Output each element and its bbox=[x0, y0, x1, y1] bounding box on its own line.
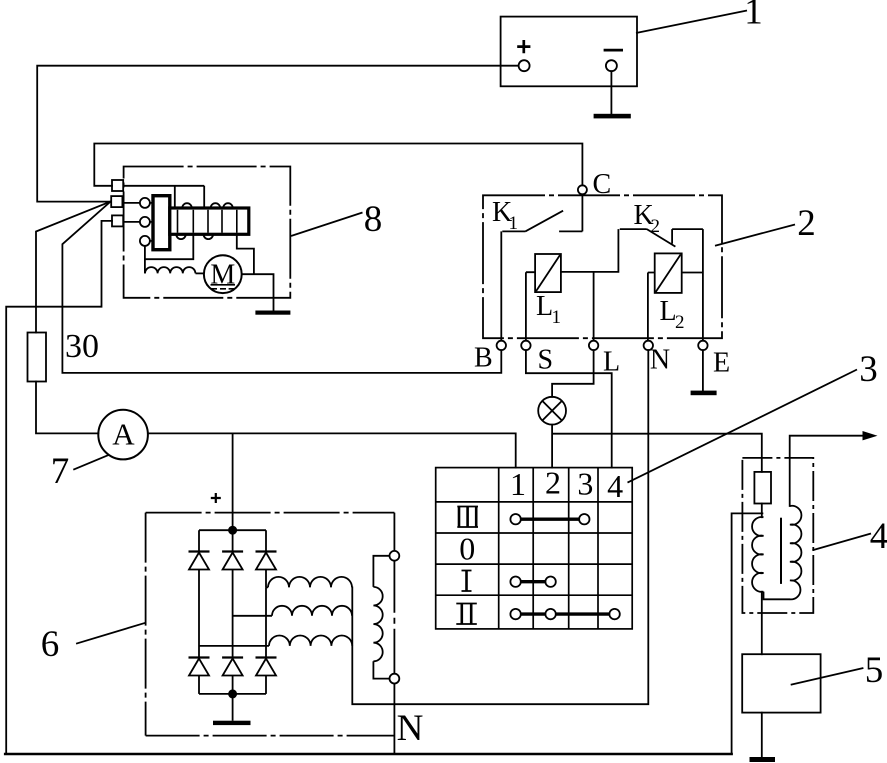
svg-text:B: B bbox=[474, 343, 493, 374]
svg-text:30: 30 bbox=[65, 328, 99, 365]
svg-text:1: 1 bbox=[509, 213, 519, 234]
svg-text:M: M bbox=[210, 260, 235, 291]
svg-text:3: 3 bbox=[577, 466, 593, 502]
svg-text:2: 2 bbox=[675, 312, 685, 333]
svg-text:E: E bbox=[713, 348, 730, 379]
svg-text:2: 2 bbox=[545, 465, 561, 501]
svg-text:C: C bbox=[593, 169, 612, 200]
svg-text:7: 7 bbox=[51, 451, 70, 492]
svg-text:3: 3 bbox=[859, 349, 878, 390]
svg-text:8: 8 bbox=[364, 199, 383, 240]
svg-text:4: 4 bbox=[607, 468, 623, 504]
svg-text:4: 4 bbox=[870, 516, 887, 557]
svg-text:2: 2 bbox=[797, 203, 816, 244]
svg-text:S: S bbox=[538, 345, 554, 376]
svg-text:1: 1 bbox=[744, 0, 763, 33]
svg-text:L: L bbox=[603, 347, 620, 378]
svg-text:A: A bbox=[112, 417, 135, 452]
svg-text:1: 1 bbox=[552, 307, 562, 328]
svg-text:0: 0 bbox=[459, 531, 475, 567]
svg-text:N: N bbox=[650, 345, 670, 376]
svg-text:1: 1 bbox=[510, 466, 526, 502]
svg-text:6: 6 bbox=[41, 624, 60, 665]
svg-text:N: N bbox=[397, 708, 424, 749]
svg-text:5: 5 bbox=[865, 650, 884, 691]
svg-text:2: 2 bbox=[651, 216, 661, 237]
